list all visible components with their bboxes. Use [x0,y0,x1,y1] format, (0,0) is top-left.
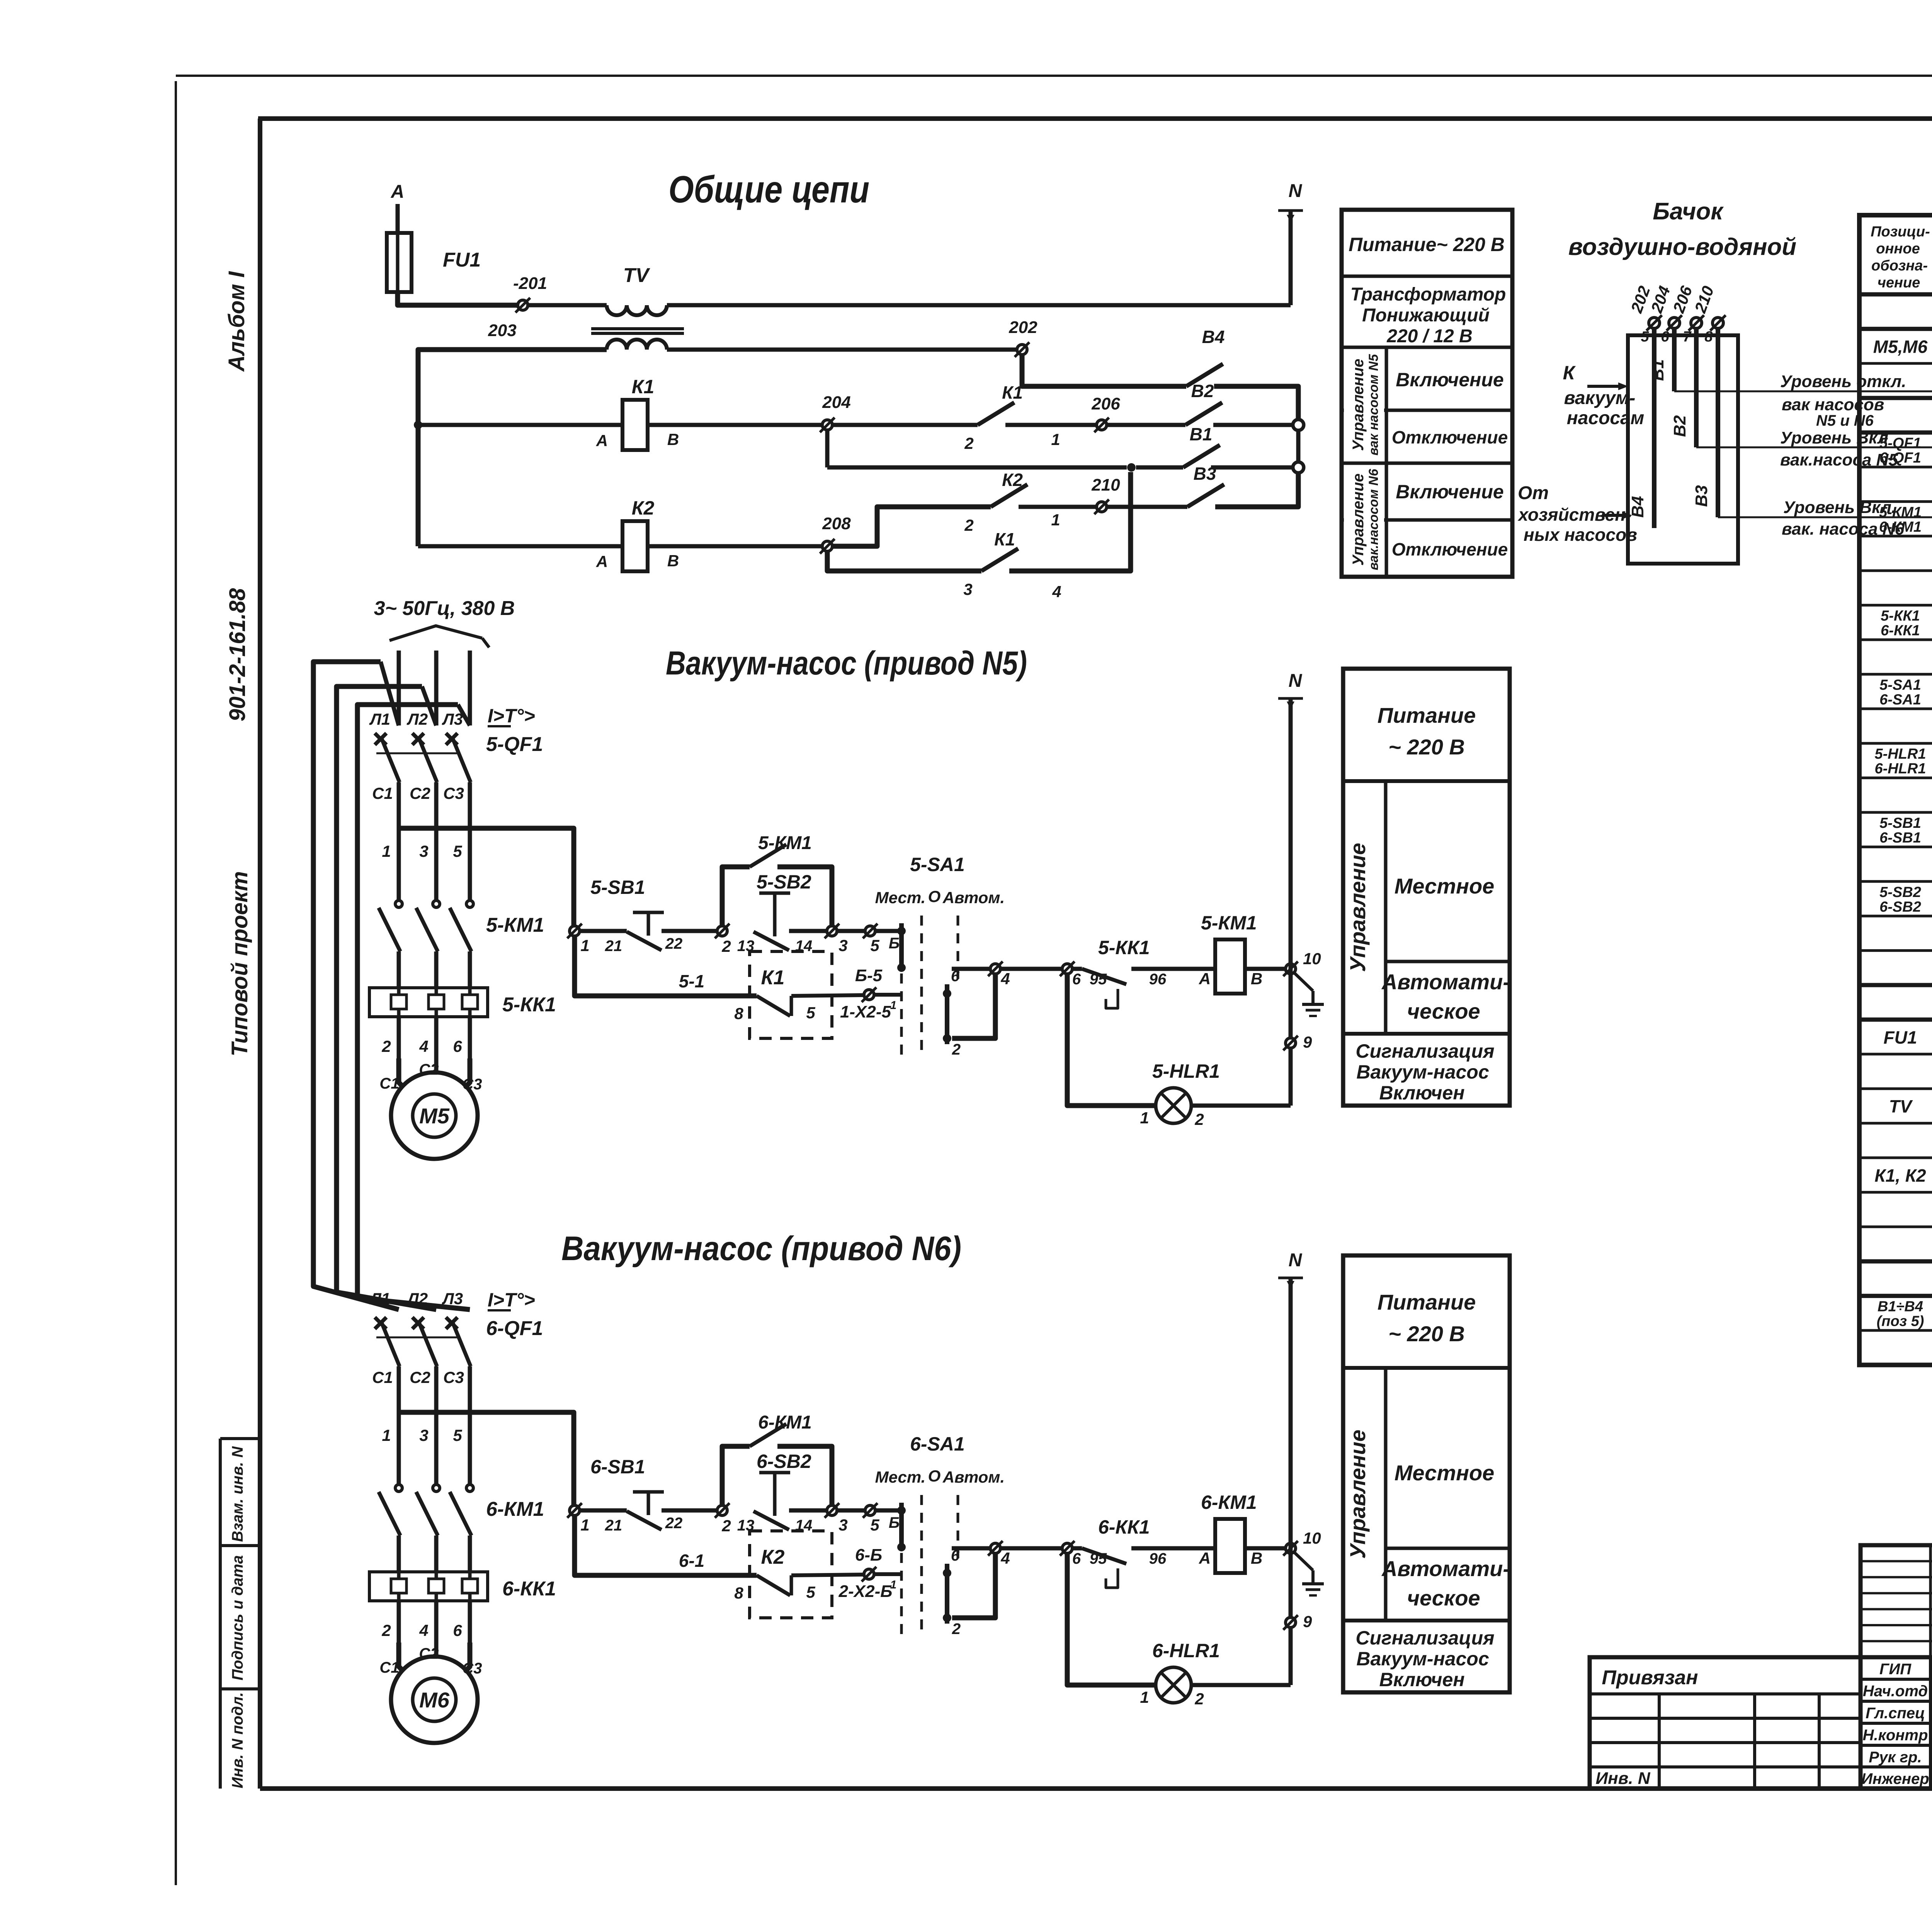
label уровень откл [1780,372,1906,429]
label 6-KM1 aux [758,1412,812,1433]
node 204 [820,418,835,432]
node 2 6 [715,1503,731,1535]
svg-text:6-SB2: 6-SB2 [757,1451,811,1472]
svg-text:Местное: Местное [1395,874,1495,898]
svg-text:10: 10 [1303,1529,1321,1547]
wire phase 2 6 KK-motor [434,1601,439,1643]
table row 10 [1881,608,1932,639]
wire secondary right [667,348,1017,352]
svg-text:Б: Б [889,935,900,952]
label Управление N6 rot [1350,469,1381,571]
svg-text:5-КК1: 5-КК1 [1881,608,1920,624]
pin A 6-KM1 [1199,1549,1211,1567]
wire SB1-node2 5 [662,929,717,933]
svg-text:4: 4 [419,1621,428,1639]
wire B2 to rail [1213,423,1293,427]
node 1 6 [567,1503,590,1534]
label 5-SA1 [910,854,965,875]
sensor wire 210 [1710,315,1726,517]
sensor wire 206 [1689,315,1704,447]
table row 30 [1877,1298,1932,1331]
wire feeder L3 to N6 [357,705,470,1310]
svg-text:96: 96 [1149,971,1167,988]
svg-text:Понижающий: Понижающий [1362,305,1490,326]
wire phase 1 entry N5 [397,651,401,725]
signature grid [1861,1657,1932,1789]
label B2 [1191,381,1214,401]
svg-text:TV: TV [623,264,651,287]
pin 6 tank [1661,329,1669,345]
pin C3 6-QF1 [443,1368,464,1386]
svg-text:Трансформатор: Трансформатор [1350,284,1506,305]
label Б 5 [889,935,900,952]
pin 6 6-KK1 [453,1621,462,1639]
svg-text:6-1: 6-1 [679,1551,704,1571]
terminal 6 5 [1060,961,1081,988]
contact 5-KK1 NC [1082,969,1126,1008]
label К1 box [761,967,785,989]
wire rail to K2 [418,544,622,549]
relay contact box К2 [750,1531,832,1618]
svg-text:5: 5 [806,1583,815,1601]
svg-text:5-SВ2: 5-SВ2 [1879,884,1921,900]
svg-text:К1: К1 [632,376,655,398]
thermal relay 6-KK1 [369,1572,488,1601]
svg-text:8: 8 [734,1004,743,1023]
wire feeder L2 to N6 [337,686,436,1310]
wire K1aux to 206 [1005,423,1097,427]
wire t4-t6 6 [1000,1546,1062,1551]
svg-text:Подпись и дата: Подпись и дата [229,1555,246,1680]
svg-text:Привязан: Привязан [1602,1666,1698,1689]
svg-text:3~ 50Гц, 380 В: 3~ 50Гц, 380 В [374,597,515,620]
svg-text:N: N [1289,671,1303,691]
terminal 6 6 [1060,1541,1081,1567]
pin 2 5-KK1 [381,1037,391,1055]
sheet outer top edge [176,75,1932,77]
pin C2 motor М5 [419,1061,439,1078]
svg-text:5-SA1: 5-SA1 [910,854,965,875]
label 6-HLR1 [1152,1640,1220,1661]
selector 5-SA1 contact1 [897,923,906,972]
svg-text:А: А [596,431,608,450]
frame bottom [260,1786,1932,1791]
pin C2 motor М6 [419,1645,439,1662]
pin C3 5-QF1 [443,784,464,802]
svg-text:901-2-161.88: 901-2-161.88 [225,588,250,722]
table row 14 [1874,746,1932,777]
svg-text:210: 210 [1691,284,1717,316]
wire phase 1 5 KK-motor [397,1017,401,1058]
svg-text:ных насосов: ных насосов [1524,525,1637,545]
selector dashes right 5 [957,916,959,983]
contact К2 [757,1575,864,1595]
pin 2 5-SA1 [952,1041,961,1058]
breaker 5-QF1 pole 3 [446,733,471,828]
svg-text:Автом.: Автом. [942,888,1005,907]
wire feeder diag L1 [381,662,399,725]
electrode В1 [1648,359,1667,381]
pin 95 6-KK1 [1090,1550,1107,1567]
svg-text:6-SА1: 6-SА1 [1879,691,1921,708]
svg-text:О: О [928,1467,941,1485]
node 2 5 [715,924,731,955]
label I>T 6 [488,1289,535,1311]
label Б 6 [889,1514,900,1531]
label от хоз насосов [1517,483,1637,545]
svg-text:N: N [1289,181,1303,201]
svg-text:5-SB2: 5-SB2 [757,871,811,893]
node rail lower [1293,462,1304,473]
fuse FU1 [387,233,412,292]
svg-text:К2: К2 [1002,470,1023,490]
svg-text:5: 5 [870,936,879,955]
label 5-1 [679,971,704,991]
label K1 aux2 [994,529,1015,549]
svg-text:5-КК1: 5-КК1 [1098,937,1150,958]
label Сигнализация N6 [1355,1627,1494,1690]
pin 96 6-KK1 [1149,1550,1167,1567]
svg-text:От: От [1518,483,1549,503]
selector dashes left low 5 [900,973,903,1055]
breaker 5-QF1 pole 2 [412,733,437,828]
svg-text:Типовой проект: Типовой проект [227,871,252,1057]
pin 2 K1 aux [964,434,973,452]
svg-text:Управление: Управление [1345,1430,1370,1559]
label Инв N titleblock [1595,1769,1650,1788]
breaker 6-QF1 pole 2 [412,1317,437,1412]
left margin strip [220,1439,260,1789]
terminal 4 6 [988,1541,1010,1567]
label Отключение 1 [1392,427,1508,447]
pin 14 5-SB2 [795,938,813,955]
wire t5-SA 6 [875,1509,901,1513]
wire phase 3 5 QF-KM [468,828,472,901]
selector 5-SA1 contact2 [943,984,951,1044]
svg-text:6-КК1: 6-КК1 [502,1578,556,1600]
frame top [258,116,1932,121]
label Автоматическое N6 [1381,1556,1510,1610]
pin 95 5-KK1 [1090,971,1107,988]
wire 206 to B2 [1107,423,1185,427]
svg-text:насосам: насосам [1567,408,1645,428]
svg-text:Гл.спец: Гл.спец [1866,1705,1925,1722]
svg-text:5-НLR1: 5-НLR1 [1874,746,1926,762]
svg-text:воздушно-водяной: воздушно-водяной [1568,234,1796,260]
contact K2 aux [991,484,1027,507]
wire B3 to rail [1215,473,1298,507]
pin 6 6-SA1 [951,1547,960,1564]
svg-text:Питание~ 220 В: Питание~ 220 В [1349,234,1505,255]
wire 210 to B3 [1107,505,1187,509]
tank body [1628,335,1738,564]
svg-text:Л1: Л1 [369,1289,390,1308]
label 203 [488,321,516,340]
pin 5 К2 [806,1583,815,1601]
svg-text:Уровень откл.: Уровень откл. [1780,372,1906,391]
wire SB2-node3 5 [789,929,827,933]
svg-text:5: 5 [870,1516,879,1534]
wire K1aux2 up [1009,472,1131,571]
pin 22 6-SB1 [665,1515,683,1532]
svg-text:В2: В2 [1191,381,1214,401]
label 5-KK1 main [502,994,556,1016]
wire fuse to 201 [398,292,518,305]
pin 8 К1 [734,1004,743,1023]
label Питание N5 [1378,703,1476,759]
svg-text:В: В [1251,970,1262,988]
svg-text:Инженер: Инженер [1861,1770,1929,1787]
label Типовой проект [227,871,252,1057]
svg-text:М5,М6: М5,М6 [1873,336,1928,357]
svg-text:С2: С2 [419,1061,439,1078]
wire feeder L1 to N6 [313,662,399,1310]
label 5-SB2 [757,871,811,893]
wire node1-SB1 5 [580,929,627,933]
pin 14 6-SB2 [795,1517,813,1534]
wire KM-node10 6 [1245,1546,1286,1551]
svg-text:С1: С1 [379,1075,399,1092]
node 9 5 [1283,1033,1312,1051]
header Позиционное обозначение [1871,224,1930,291]
wire auto loop 5 [952,969,995,1038]
svg-text:5: 5 [453,842,462,860]
wire A to fuse [396,204,400,233]
label L1 N5 [369,710,390,728]
contactor 6-KM1 pole 1 [379,1485,402,1572]
pin 7 tank [1683,329,1692,345]
label L3 N5 [442,710,463,728]
sheet outer left edge [175,81,177,1885]
svg-text:2: 2 [952,1041,961,1058]
label 202 [1009,318,1037,337]
svg-text:ческое: ческое [1407,999,1480,1023]
svg-text:22: 22 [665,1515,683,1532]
svg-text:6: 6 [453,1621,462,1639]
svg-text:Бачок: Бачок [1653,198,1724,225]
svg-text:2: 2 [721,1517,731,1535]
svg-text:С1: С1 [372,784,393,802]
svg-text:1: 1 [1051,511,1060,529]
svg-text:1: 1 [580,936,589,955]
pin 6 5-KK1 [453,1037,462,1055]
svg-text:М6: М6 [419,1688,450,1712]
wire 6-1 branch [575,1515,757,1575]
svg-text:С2: С2 [410,784,430,802]
pin B K2 [667,552,679,570]
svg-text:В3: В3 [1194,464,1216,484]
wire phase 1 5 QF-KM [397,828,401,901]
svg-text:I>Т°>: I>Т°> [488,705,535,727]
svg-text:В: В [667,430,679,448]
label 6-KK1 main [502,1578,556,1600]
pin 6 5-SA1 [951,968,960,985]
svg-text:6-КК1: 6-КК1 [1098,1516,1150,1538]
selector 6-SA1 contact2 [943,1564,951,1624]
node A label [391,182,405,202]
node 10 6 [1283,1529,1321,1556]
contactor 5-KM1 pole 3 [450,900,473,988]
label 5-QF1 [486,733,543,756]
wire SB2-node3 6 [789,1509,827,1513]
svg-text:Местное: Местное [1395,1461,1495,1485]
label К2 box [761,1546,785,1568]
svg-text:1: 1 [382,1426,391,1444]
label 208 [822,514,851,533]
node 206 [1094,418,1109,432]
pin 2 K2 aux [964,516,973,534]
svg-text:Альбом I: Альбом I [224,271,249,372]
label wire 206 [1669,283,1696,315]
svg-text:21: 21 [605,938,622,955]
label Автом [942,1468,1005,1486]
label B1 [1190,424,1213,444]
pin A 5-KM1 [1199,970,1211,988]
svg-text:5-QF1: 5-QF1 [1879,435,1921,452]
svg-text:8: 8 [1704,329,1713,345]
pin 5 К1 [806,1004,815,1022]
svg-text:6: 6 [1072,971,1081,988]
selector dashes mid 5 [920,916,923,1055]
label К вакуум-насосам [1563,362,1645,428]
wire TV to N rail [667,303,1291,307]
contactor 6-KM1 pole 3 [450,1485,473,1572]
svg-text:С1: С1 [379,1659,399,1676]
wire t6-KK 5 [1072,967,1082,971]
wire lamp-node9 5 [1191,1104,1291,1108]
wire lamp branch 5 [1067,973,1156,1106]
pin 5 6-KM1 [453,1426,462,1444]
node rail upper [1293,420,1304,430]
level line B3 [1718,516,1932,518]
node 3 6 [825,1503,848,1534]
level line B1 [1674,391,1932,392]
svg-text:О: О [928,887,941,905]
table row 24 [1889,1093,1932,1119]
svg-text:5: 5 [806,1004,815,1022]
contact K1 aux2 [981,549,1018,571]
svg-text:5-SВ1: 5-SВ1 [1879,815,1921,831]
label 206 [1091,394,1120,413]
svg-text:N5 и N6: N5 и N6 [1816,412,1874,429]
label K1 coil [632,376,655,398]
wire t5-SA 5 [875,929,901,933]
label 6-KM1 main [486,1498,544,1520]
ground 5 [1294,972,1324,1016]
node 3 5 [825,924,848,955]
svg-text:5-1: 5-1 [679,971,704,991]
svg-text:К1: К1 [761,967,785,989]
svg-text:Л3: Л3 [442,1289,463,1308]
contact B1 [1183,445,1220,467]
svg-text:вак.насосом N6: вак.насосом N6 [1366,469,1381,571]
pin 13 6-SB2 [737,1517,755,1534]
wire 204 drop [825,430,830,467]
svg-text:С3: С3 [443,1368,464,1386]
svg-text:Общие цепи: Общие цепи [668,168,869,211]
svg-text:5: 5 [453,1426,462,1444]
pin 2 lamp 6 [1194,1690,1204,1708]
svg-text:онное: онное [1876,241,1920,257]
svg-text:1-Х2-5: 1-Х2-5 [840,1002,891,1021]
breaker 5-QF1 pole 1 [375,733,400,828]
label K2 aux [1002,470,1023,490]
svg-text:В1: В1 [1648,359,1667,381]
N rail 5 [1278,698,1303,1106]
svg-text:хозяйствен-: хозяйствен- [1517,505,1631,525]
svg-text:Сигнализация: Сигнализация [1355,1040,1494,1062]
transformer TV core [591,329,684,333]
svg-text:206: 206 [1669,283,1696,315]
signature row ГИП [1879,1660,1932,1678]
label 6-QF1 [486,1317,543,1340]
привязан box [1590,1657,1861,1789]
wire 204 to K1 contact [832,423,978,427]
svg-text:5-КМ1: 5-КМ1 [758,833,812,853]
contact 6-KK1 NC [1082,1548,1126,1588]
selector 6-SA1 contact1 [897,1503,906,1551]
wire motor leads 6 [399,1643,470,1679]
svg-text:Инв. N подл.: Инв. N подл. [229,1692,246,1789]
svg-text:С3: С3 [462,1660,482,1677]
svg-text:1: 1 [382,842,391,860]
wire 203 secondary left [418,350,607,546]
table row 5 [1879,435,1932,466]
pin C3 motor М5 [462,1076,482,1093]
svg-text:3: 3 [419,842,428,860]
label Управление N6 [1345,1430,1370,1559]
pin 21 5-SB1 [605,938,622,955]
wire SB1-node2 6 [662,1509,717,1513]
junction K1 row left [414,421,422,429]
label 3ph 380V [374,597,515,620]
svg-text:203: 203 [488,321,516,340]
svg-text:206: 206 [1091,394,1120,413]
label B4 [1202,327,1225,347]
wire node1-SB1 6 [580,1509,627,1513]
wire phase 2 5 QF-KM [434,828,439,901]
pin C3 motor М6 [462,1660,482,1677]
title Вакуум-насос привод N5 [666,645,1027,682]
wire phase 2 6 QF-KM [434,1412,439,1485]
label 901-2-161.88 [225,588,250,722]
N rail common [1278,211,1303,305]
svg-text:К: К [1563,362,1576,384]
table row 22 [1884,1024,1932,1050]
coil 6-KM1 [1215,1519,1245,1573]
wire 208 corner up [832,507,991,546]
transformer TV secondary [607,340,667,350]
label Взам инв N [229,1446,246,1542]
svg-text:4: 4 [1052,583,1061,601]
wire phase 3 5 KK-motor [468,1017,472,1058]
svg-text:Мест.: Мест. [875,888,926,907]
label O [928,887,941,905]
table row 26 [1874,1162,1932,1188]
svg-text:I>Т°>: I>Т°> [488,1289,535,1311]
N label common [1289,181,1303,201]
svg-text:3: 3 [838,1516,847,1534]
svg-text:6-SA1: 6-SA1 [910,1433,965,1455]
svg-text:Отключение: Отключение [1392,539,1508,559]
label 5-KM1 aux [758,833,812,853]
label 5-KM1 main [486,914,544,936]
svg-text:6-QF1: 6-QF1 [486,1317,543,1340]
svg-text:Л2: Л2 [406,1289,428,1308]
pin 4 6-KK1 [419,1621,428,1639]
label L3 N6 [442,1289,463,1308]
svg-text:202: 202 [1009,318,1037,337]
